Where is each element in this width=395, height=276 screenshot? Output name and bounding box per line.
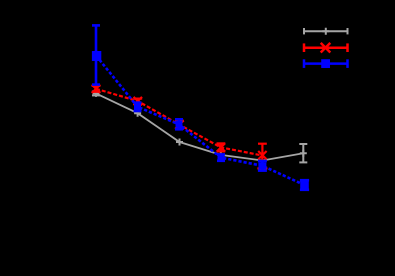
red series line (dashed) <box>96 89 262 156</box>
red error bar p4 <box>220 143 222 151</box>
gray plus markers <box>93 90 307 164</box>
red error bar p3 <box>178 121 180 129</box>
legend entry blue <box>304 59 348 68</box>
blue error bar p6 <box>303 180 306 190</box>
blue error bars <box>92 25 309 189</box>
blue error bar p1 <box>95 25 98 84</box>
gray error bar p6 <box>299 144 307 162</box>
legend entry gray <box>304 28 348 35</box>
red error bars <box>92 86 268 169</box>
red error bar p1 <box>95 86 97 92</box>
legend entry red <box>304 43 348 53</box>
legend blue square marker <box>321 59 330 68</box>
blue series line (dashed) <box>96 56 304 185</box>
blue error bar p4 <box>220 154 223 160</box>
red X markers <box>92 85 267 160</box>
gray series line <box>96 93 303 160</box>
red error bar p5 <box>261 144 263 169</box>
blue square markers <box>92 51 309 189</box>
red error bar p2 <box>137 99 139 104</box>
gray error bar p1 <box>92 91 100 95</box>
blue error bar p3 <box>178 119 181 129</box>
blue error bar p2 <box>136 103 139 111</box>
blue error bar p5 <box>261 161 264 171</box>
